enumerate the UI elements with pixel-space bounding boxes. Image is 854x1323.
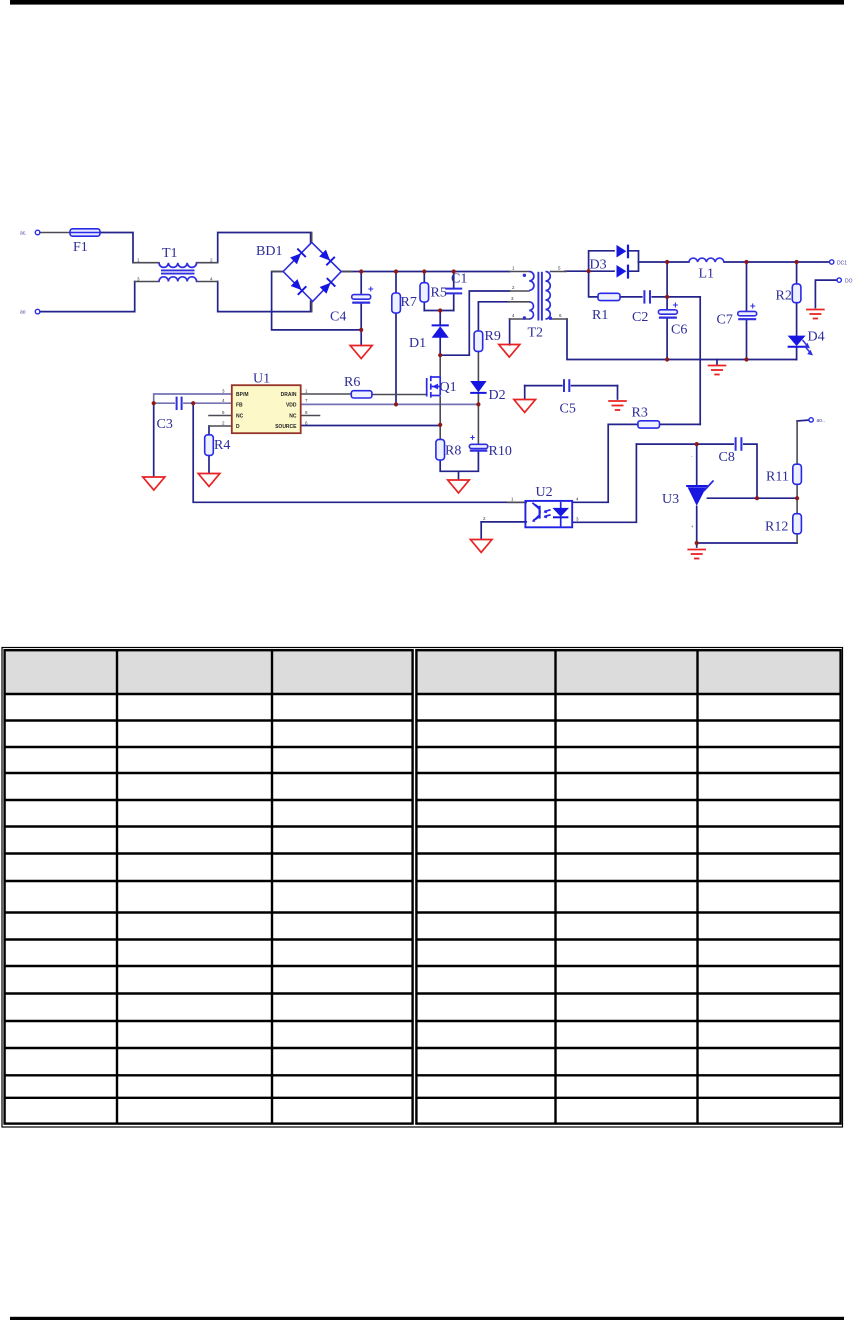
svg-text:1: 1 — [137, 258, 140, 263]
svg-text:U3: U3 — [662, 492, 679, 507]
svg-text:BD1: BD1 — [256, 244, 282, 259]
svg-text:C3: C3 — [157, 417, 173, 432]
svg-text:R7: R7 — [401, 295, 417, 310]
svg-text:2: 2 — [222, 421, 225, 426]
svg-text:3: 3 — [222, 389, 225, 394]
svg-text:T2: T2 — [528, 326, 544, 341]
svg-text:R4: R4 — [214, 438, 230, 453]
svg-text:R1: R1 — [592, 308, 608, 323]
svg-text:4: 4 — [222, 398, 225, 403]
svg-text:3: 3 — [511, 296, 514, 301]
svg-text:R9: R9 — [485, 329, 501, 344]
svg-text:C6: C6 — [671, 323, 687, 338]
svg-text:5: 5 — [558, 266, 561, 271]
svg-text:1: 1 — [305, 389, 308, 394]
svg-text:C8: C8 — [719, 450, 735, 465]
svg-text:R11: R11 — [766, 470, 789, 485]
svg-text:DO: DO — [845, 279, 853, 285]
svg-text:VDD: VDD — [286, 402, 297, 408]
svg-text:ao..: ao.. — [817, 418, 825, 424]
svg-text:C7: C7 — [717, 313, 733, 328]
svg-text:U2: U2 — [536, 485, 553, 500]
svg-text:C5: C5 — [560, 402, 576, 417]
svg-text:Q1: Q1 — [440, 380, 457, 395]
svg-text:NC: NC — [289, 414, 297, 420]
svg-text:BP/M: BP/M — [236, 392, 249, 398]
svg-text:+: + — [691, 524, 694, 529]
svg-text:3: 3 — [576, 516, 579, 521]
svg-text:DC1: DC1 — [837, 261, 847, 267]
svg-text:SOURCE: SOURCE — [275, 424, 297, 430]
svg-text:D4: D4 — [808, 330, 825, 345]
svg-text:R10: R10 — [489, 444, 512, 459]
svg-text:R5: R5 — [431, 286, 447, 301]
svg-text:2: 2 — [483, 516, 486, 521]
svg-text:D2: D2 — [489, 388, 506, 403]
svg-text:8: 8 — [305, 410, 308, 415]
svg-text:4: 4 — [512, 313, 515, 318]
svg-text:D: D — [236, 424, 240, 430]
svg-text:U1: U1 — [253, 372, 270, 387]
svg-text:1: 1 — [511, 497, 514, 502]
svg-text:7: 7 — [305, 398, 308, 403]
svg-text:R2: R2 — [776, 289, 792, 304]
svg-text:2: 2 — [210, 258, 213, 263]
svg-text:NC: NC — [236, 414, 244, 420]
svg-text:-: - — [691, 454, 693, 459]
svg-text:C1: C1 — [451, 272, 467, 287]
svg-text:ac.: ac. — [20, 231, 27, 237]
svg-text:R3: R3 — [632, 406, 648, 421]
svg-text:ao: ao — [20, 310, 26, 316]
svg-text:C4: C4 — [330, 310, 346, 325]
svg-text:F1: F1 — [73, 240, 88, 255]
svg-text:R12: R12 — [765, 520, 788, 535]
svg-text:DRAIN: DRAIN — [281, 392, 297, 398]
svg-text:2: 2 — [512, 285, 515, 290]
svg-text:R8: R8 — [445, 444, 461, 459]
svg-text:6: 6 — [559, 313, 562, 318]
svg-text:D3: D3 — [590, 258, 607, 273]
svg-text:T1: T1 — [162, 246, 178, 261]
svg-text:1: 1 — [512, 266, 515, 271]
svg-text:R6: R6 — [344, 375, 360, 390]
svg-text:FB: FB — [236, 402, 243, 408]
svg-text:4: 4 — [576, 497, 579, 502]
svg-text:5: 5 — [222, 410, 225, 415]
svg-text:D1: D1 — [409, 336, 426, 351]
svg-text:C2: C2 — [632, 310, 648, 325]
svg-text:L1: L1 — [699, 267, 715, 282]
